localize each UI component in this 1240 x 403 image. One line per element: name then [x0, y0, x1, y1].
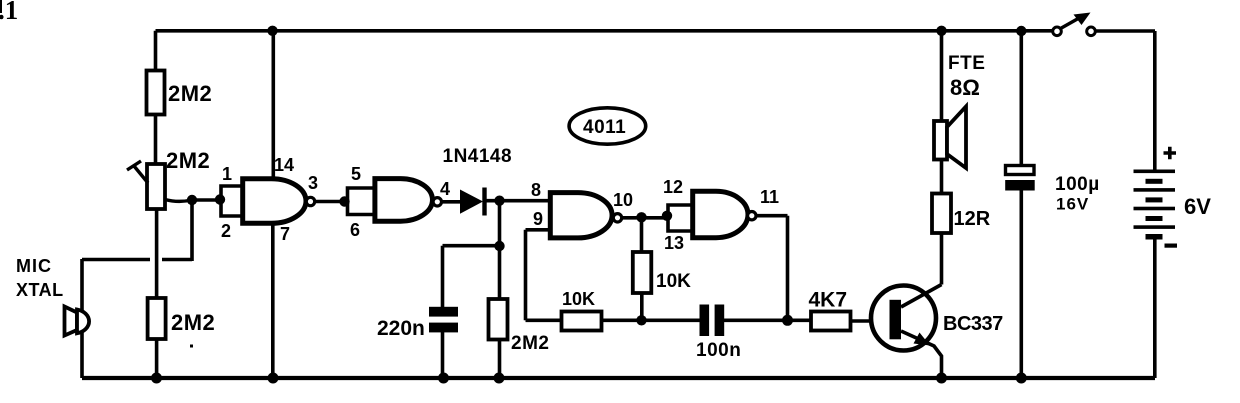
svg-text:9: 9: [533, 209, 543, 229]
node 100u bottom rail: [1016, 373, 1027, 384]
resistor 10K vertical: [633, 217, 652, 320]
resistor lower-left 2M2: [148, 209, 166, 378]
svg-text:1N4148: 1N4148: [443, 146, 513, 167]
svg-text:2: 2: [221, 221, 231, 241]
svg-text:BC337: BC337: [943, 313, 1003, 335]
svg-text:220n: 220n: [377, 317, 425, 340]
diode D1 1N4148: [460, 188, 487, 216]
op-amp/gate U1a NAND pins 1,2,3: [243, 179, 315, 224]
wire mic left branch: [80, 259, 84, 378]
gate1 input bracket pins 1,2: [221, 184, 243, 218]
svg-text:2M2: 2M2: [168, 81, 212, 106]
svg-text:7: 7: [280, 224, 290, 244]
wire gate3 out: [622, 216, 667, 220]
wire pin14 to top rail: [271, 31, 275, 179]
wire diode node down: [498, 201, 502, 246]
wire pin7 to bottom rail: [271, 223, 275, 378]
battery right lead: [1153, 31, 1157, 378]
svg-text:10: 10: [613, 190, 633, 210]
svg-text:3: 3: [308, 173, 318, 193]
battery B1 6V: [1134, 170, 1176, 240]
op-amp/gate U1c NAND pins 8,9,10: [550, 193, 621, 238]
figure label .1: [0, 0, 18, 25]
speaker LS1: [934, 107, 966, 169]
svg-text:1: 1: [222, 164, 232, 184]
svg-text:13: 13: [664, 233, 684, 253]
IC label 4011 oval: [569, 108, 646, 144]
svg-text:FTE: FTE: [948, 53, 985, 74]
wire node A to gate1 input: [192, 198, 220, 202]
svg-text:11: 11: [760, 187, 779, 207]
switch S1: [1053, 13, 1096, 36]
node lower-left 2M2 bottom rail: [151, 373, 162, 384]
svg-text:100µ: 100µ: [1055, 174, 1100, 195]
svg-text:.1: .1: [0, 0, 18, 25]
wire gate2 out to diode: [442, 200, 462, 204]
resistor R top 2M2: [147, 31, 165, 164]
label FTE 8ohm: [948, 53, 985, 100]
node pin14 top rail: [267, 26, 277, 36]
node A (wiper junction): [187, 195, 197, 205]
trimmer 2M2: [127, 161, 192, 209]
svg-text:8: 8: [531, 180, 541, 200]
node feedback bottom: [636, 315, 646, 325]
wire feedback node to 100n: [642, 318, 700, 322]
node speaker top rail: [936, 26, 946, 36]
resistor 2M2 mid: [489, 246, 508, 378]
svg-text:2M2: 2M2: [511, 333, 549, 354]
wire gate4 out down: [756, 216, 788, 321]
node 100u top rail: [1016, 26, 1026, 36]
svg-text:2M2: 2M2: [166, 148, 210, 173]
wire 100n to 4K7: [724, 318, 811, 322]
op-amp/gate U1b NAND pins 5,6,4: [375, 179, 442, 222]
wire 4K7 to base: [851, 319, 890, 323]
capacitor 100n: [700, 305, 725, 337]
svg-text:MIC: MIC: [16, 256, 52, 276]
resistor 10K horizontal: [562, 312, 602, 331]
microphone MIC XTAL: [65, 307, 90, 336]
battery minus sign: [1165, 244, 1178, 248]
wire 10K to node: [602, 318, 642, 322]
wire pin9 feedback: [526, 230, 562, 320]
svg-text:4K7: 4K7: [809, 289, 848, 312]
node pin10: [636, 212, 646, 222]
svg-text:100n: 100n: [696, 340, 741, 361]
op-amp/gate U1d NAND pins 12,13,11: [693, 191, 756, 237]
svg-text:10K: 10K: [656, 271, 691, 292]
svg-text:14: 14: [274, 155, 294, 175]
node pin11 bottom: [782, 315, 793, 326]
wire collector to 12R: [940, 233, 944, 285]
node gate4 input: [662, 211, 672, 221]
wire 12R to speaker: [940, 160, 944, 194]
node pin7 bottom rail: [268, 373, 279, 384]
bottom rail: [82, 376, 1155, 380]
stray speck: [190, 345, 193, 348]
label MIC XTAL: [16, 256, 64, 300]
svg-text:8Ω: 8Ω: [950, 75, 980, 100]
svg-text:XTAL: XTAL: [16, 280, 64, 300]
svg-text:2M2: 2M2: [171, 310, 215, 335]
svg-text:6V: 6V: [1184, 194, 1211, 219]
node gate2 input: [339, 196, 349, 206]
gate4 input bracket pins 12,13: [668, 203, 693, 233]
node 220n bottom rail: [438, 373, 449, 384]
top rail: [156, 29, 1156, 33]
node gate1 input: [215, 194, 225, 204]
wire speaker to top rail: [940, 31, 944, 121]
gate2 input bracket pins 5,6: [348, 186, 375, 216]
wire mic horizontal: [82, 200, 192, 261]
svg-text:16V: 16V: [1056, 195, 1089, 214]
label 100u 16V: [1055, 174, 1100, 214]
node emitter bottom rail: [936, 373, 947, 384]
svg-text:12R: 12R: [954, 208, 991, 230]
svg-text:4011: 4011: [583, 117, 626, 138]
svg-text:12: 12: [663, 177, 683, 197]
node diode output: [494, 196, 504, 206]
resistor 12R: [932, 194, 951, 234]
battery plus sign: [1164, 147, 1177, 160]
svg-text:4: 4: [440, 179, 450, 199]
wire gate1 out to gate2 in: [315, 200, 345, 204]
node 220n branch: [494, 241, 504, 251]
wire branch to 220n: [443, 246, 500, 307]
transistor Q1 BC337: [871, 285, 942, 379]
node 2M2 bottom rail: [494, 373, 505, 384]
svg-text:6: 6: [350, 220, 360, 240]
svg-text:5: 5: [351, 164, 361, 184]
capacitor 220n: [429, 307, 458, 378]
capacitor C 100u: [1005, 31, 1034, 378]
svg-text:10K: 10K: [562, 289, 595, 309]
resistor 4K7: [811, 312, 851, 331]
wire diode to gate3 pin8: [486, 199, 550, 203]
